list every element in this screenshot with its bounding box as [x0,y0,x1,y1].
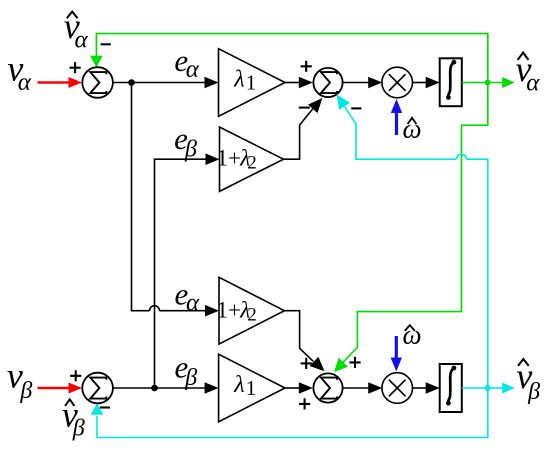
svg-text:ω: ω [403,319,422,349]
wire v_beta_hat output (cyan) [462,387,503,389]
svg-text:β: β [527,379,540,405]
label plus sign at summer S3 green input [349,357,360,368]
label plus sign at summer S4 input [70,370,81,381]
label minus sign at summer S4 feedback input [100,406,110,408]
svg-text:1+: 1+ [217,297,241,322]
integrator I1 (alpha channel) [440,58,462,106]
wire summer S2 to multiplier X1 [342,82,370,84]
label plus sign at summer S2 input [301,61,312,72]
gain block 1+L2 top (1+lambda_2) [220,127,284,191]
wire red input arrow v_alpha [38,81,71,83]
gain block L1 top (lambda_1) [219,49,286,117]
svg-text:2: 2 [247,304,256,325]
label v_beta_hat feedback (bottom left) [65,399,74,406]
svg-text:β: β [19,378,32,404]
wire e_alpha cross-feed to gain 1+L2 bottom [132,83,150,311]
node e_beta tap [151,385,158,392]
multiplier X1 (alpha channel) [382,67,413,98]
svg-text:α: α [526,69,540,96]
gain block L1 bottom (lambda_1) [219,354,285,422]
svg-text:λ: λ [233,372,244,398]
label omega_hat (bottom) [405,325,415,331]
summer S3 (beta channel) [313,373,342,402]
label v_alpha_hat feedback (top left) [67,12,78,19]
node v_alpha_hat output tap (green) [485,80,491,86]
wire green cross-feed from v_alpha_hat to summer S3 [343,83,488,363]
wire green feedback into summer S1 [96,34,487,80]
svg-text:λ: λ [233,67,244,93]
wire cyan cross-feed from v_beta_hat to summer S2 [345,106,457,159]
label plus sign at summer S3 lower-left [299,398,310,409]
summer S1 (v_alpha error) [82,67,113,98]
label v_alpha_hat output [518,53,529,60]
wire L1 bottom output to summer S3 [285,387,300,389]
summer S2 (alpha channel) [313,68,342,97]
svg-text:α: α [18,69,32,96]
svg-text:α: α [186,289,200,316]
svg-text:1+: 1+ [217,145,241,170]
wire e_beta cross-feed to gain 1+L2 top [155,159,207,388]
label plus sign at summer S3 upper-left [301,358,312,369]
label v_beta_hat output [518,359,529,366]
wire v_alpha_hat output (green) [462,82,503,84]
label omega_hat (top) [408,118,417,124]
svg-text:β: β [184,365,197,391]
svg-text:β: β [184,137,197,163]
wire omega_hat input arrow into X1 (blue) [395,112,398,135]
label minus sign at summer S2 lower-left [299,107,310,109]
label plus sign at summer S1 input [70,62,81,73]
node v_beta_hat output tap (cyan) [485,385,491,391]
svg-text:α: α [186,56,200,83]
gain block 1+L2 bottom (1+lambda_2) [219,277,284,344]
svg-text:2: 2 [247,152,256,173]
wire L1 output to summer S2 [285,82,300,84]
svg-text:β: β [72,416,85,442]
node e_alpha tap [128,79,135,86]
wire red input arrow v_beta [38,387,71,389]
integrator I2 (beta channel) [440,364,462,412]
multiplier X2 (beta channel) [382,373,413,404]
svg-text:1: 1 [246,376,256,400]
svg-text:α: α [75,27,89,54]
wire e_alpha from S1 to gain L1 [112,82,206,84]
wire multiplier X1 to integrator I1 [413,82,428,84]
wire summer S3 to multiplier X2 [342,387,370,389]
wire 1+L2 top output to summer S2 minus input [284,109,313,160]
label minus sign at summer S1 feedback input [101,43,111,45]
label minus sign at summer S2 lower-right [351,107,361,109]
svg-text:ω: ω [403,114,422,144]
wire 1+L2 bottom output to summer S3 plus input [284,311,313,362]
svg-text:1: 1 [246,71,256,95]
wire e_beta from S4 to gain L1 bottom [112,387,206,389]
wire omega_hat input arrow into X2 (blue) [395,336,398,358]
wire multiplier X2 to integrator I2 [413,387,428,389]
summer S4 (v_beta error) [82,373,113,404]
